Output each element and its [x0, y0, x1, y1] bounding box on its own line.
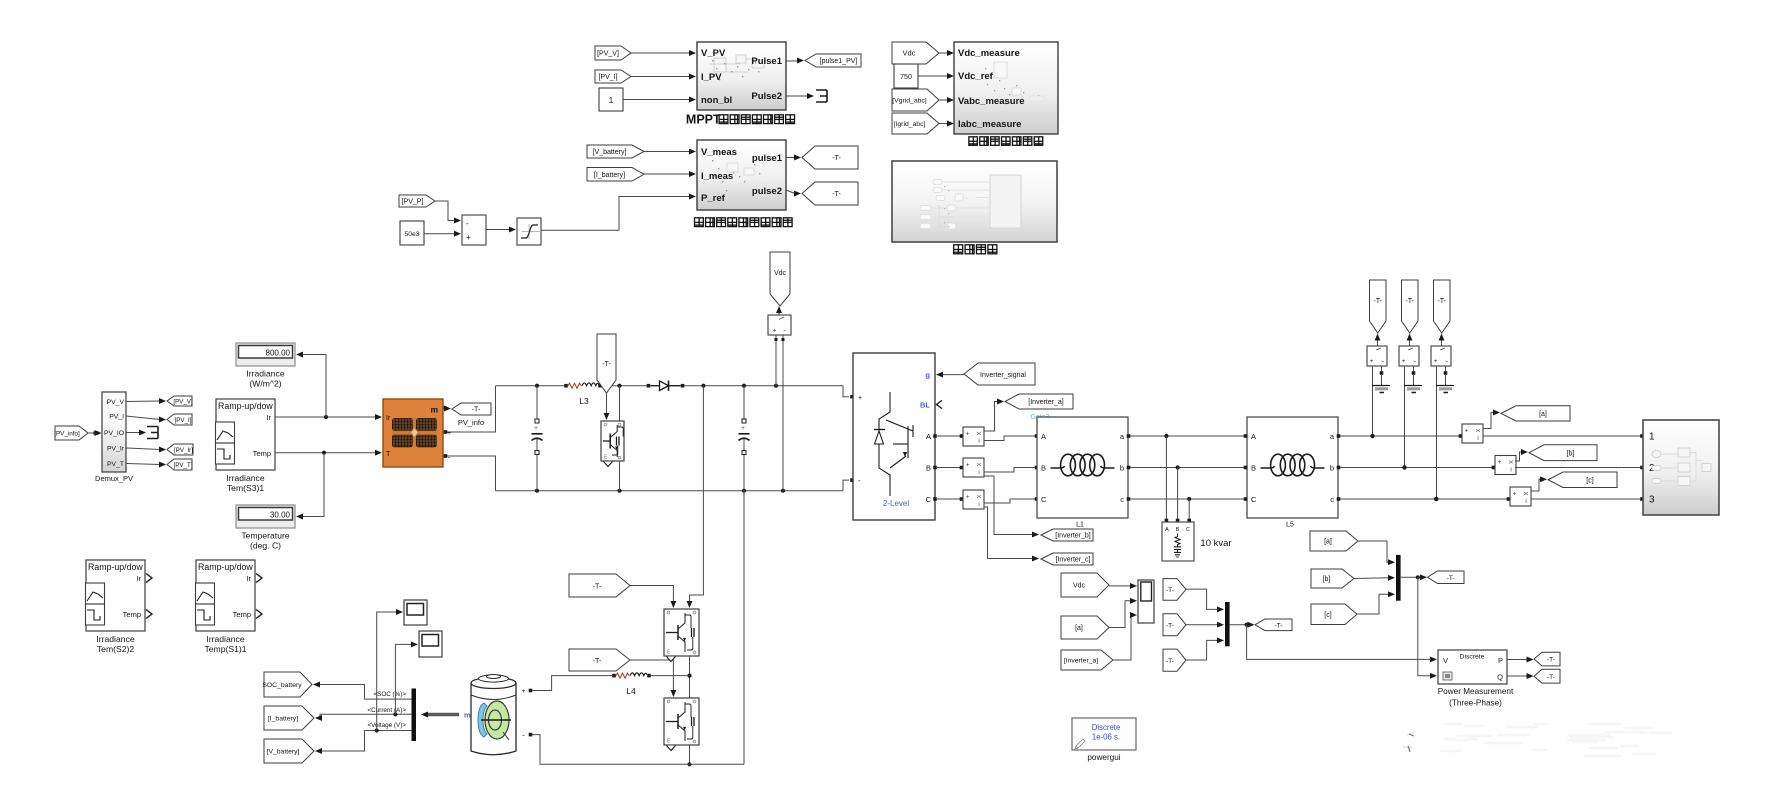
svg-text:50e3: 50e3: [404, 231, 419, 238]
goto tag [I_battery] (goto): [264, 706, 314, 730]
svg-text:P: P: [1498, 656, 1503, 665]
goto tag [b] (grid current): [1529, 445, 1597, 461]
svg-text:Ir: Ir: [386, 415, 391, 422]
wire phase a L1 to L5: [1127, 434, 1248, 438]
wire: [424, 233, 456, 235]
svg-text:C: C: [926, 495, 932, 504]
wire: [126, 464, 160, 465]
goto tag [PV_T]: [167, 459, 193, 470]
svg-text:[PV_info]: [PV_info]: [54, 431, 80, 438]
ground symbol phase c: [1436, 386, 1454, 393]
arrowhead Pulse2 terminator: [807, 93, 814, 99]
bus wire PV_info to demux: [88, 430, 102, 436]
from tag [PV_info]: [54, 426, 88, 440]
subsystem inverter control block: [954, 42, 1058, 134]
wire Vdc measurement + to DC+: [775, 335, 778, 386]
subsystem battery charge/discharge power module: [697, 140, 786, 210]
arrowhead Vabc_measure: [947, 97, 954, 103]
svg-text:Vdc: Vdc: [1073, 583, 1086, 590]
svg-text:BL: BL: [920, 401, 930, 410]
wire Inverter_signal to g: [936, 372, 964, 378]
display block Temperature (deg. C): [236, 505, 295, 528]
svg-text:-T-: -T-: [593, 584, 602, 591]
ground symbol phase a: [1372, 386, 1390, 393]
wire: [644, 173, 690, 175]
wire gate to boost IGBT: [604, 393, 610, 420]
svg-text:PV_V: PV_V: [107, 399, 125, 406]
title MPPT tracker (Chinese): [686, 112, 795, 126]
wire Temp to PV array: [275, 450, 382, 456]
saturation block: [517, 218, 541, 245]
current measurement block Iab inverter C: [963, 490, 984, 509]
arrowhead goto -T- pulse1: [794, 155, 801, 161]
svg-text:+: +: [966, 463, 970, 469]
svg-text:+: +: [522, 688, 526, 695]
wire: [541, 197, 690, 231]
svg-text:Ramp-up/dow: Ramp-up/dow: [88, 562, 143, 572]
svg-text:+: +: [447, 430, 451, 437]
svg-text:i: i: [1525, 499, 1526, 505]
svg-text:+: +: [741, 425, 745, 432]
label PV_info: [458, 418, 484, 427]
wire phase a tap to capacitor bank: [1165, 436, 1169, 522]
wire battery + through L4 to half-bridge midpoint: [522, 676, 612, 695]
svg-text:Iabc_measure: Iabc_measure: [958, 119, 1021, 130]
svg-text:[Igrid_abc]: [Igrid_abc]: [894, 121, 926, 128]
arrowhead Vdc_ref: [947, 73, 954, 79]
title battery power module (Chinese): [695, 218, 793, 227]
label Demux_PV: [95, 474, 133, 483]
from tag -T- (buck gate bottom): [569, 649, 630, 671]
wire: [623, 99, 690, 101]
wire: [126, 400, 160, 403]
svg-text:[Vgrid_abc]: [Vgrid_abc]: [892, 98, 926, 105]
svg-text:Temp: Temp: [233, 610, 251, 619]
svg-text:L1: L1: [1076, 522, 1084, 529]
svg-text:g: g: [925, 371, 930, 380]
from tag Vdc (vertical goto above voltage measurement): [770, 252, 790, 306]
capacitor C2 (DC link): [739, 386, 750, 491]
current measurement block Iab inverter A: [963, 427, 984, 446]
svg-text:[Inverter_a]: [Inverter_a]: [1064, 658, 1098, 665]
wire [Inverter_a] to scope: [1113, 612, 1137, 660]
wire Ir to PV array: [275, 414, 382, 420]
from tag -T- (mux1 input 2): [1163, 614, 1186, 636]
wire SOC to goto SOC_battery: [313, 682, 412, 700]
label Irradiance 1: [96, 634, 134, 644]
svg-text:PV_I: PV_I: [109, 414, 124, 421]
wire -T- 1 to mux1: [1186, 589, 1224, 612]
wire: [786, 190, 795, 194]
bus wire m to PV_info goto: [443, 406, 451, 412]
voltage measurement block Vdc: [768, 315, 791, 335]
svg-text:[I_battery]: [I_battery]: [594, 172, 625, 179]
wire phase c tap to capacitor bank: [1187, 499, 1191, 522]
svg-text:I_meas: I_meas: [701, 171, 733, 182]
svg-text:Power Measurement: Power Measurement: [1438, 687, 1514, 696]
constant block 750: [894, 64, 918, 88]
svg-text:L3: L3: [579, 396, 589, 406]
svg-text:C: C: [1041, 495, 1047, 504]
universal bridge 2-Level inverter: [853, 353, 935, 520]
label L5: [1286, 522, 1294, 529]
title inverter control part (Chinese): [969, 137, 1043, 146]
goto tag -T- vertical (phase b voltage): [1402, 280, 1419, 333]
svg-text:-T-: -T-: [1547, 657, 1555, 664]
svg-text:pulse2: pulse2: [752, 186, 782, 197]
svg-text:Temp: Temp: [253, 449, 271, 458]
svg-text:[PV_P]: [PV_P]: [402, 199, 424, 206]
IGBT battery top: [664, 609, 699, 656]
svg-text:powergui: powergui: [1087, 753, 1120, 762]
svg-text:[a]: [a]: [1539, 411, 1547, 418]
svg-text:+: +: [1434, 359, 1438, 365]
subsystem waveform scope block: [892, 161, 1057, 242]
PV array block (orange): [383, 399, 451, 467]
wire: [631, 52, 690, 54]
svg-text:V: V: [1443, 656, 1448, 665]
svg-text:750: 750: [900, 74, 912, 81]
goto tag -T- (Q): [1534, 669, 1560, 683]
svg-text:-T-: -T-: [832, 155, 841, 162]
wire cm C signal to goto [Inverter_c]: [984, 507, 1039, 561]
svg-text:B: B: [1176, 527, 1180, 533]
from tag [c] (pm): [1311, 604, 1357, 625]
svg-text:[a]: [a]: [1075, 625, 1083, 632]
svg-text:-T-: -T-: [1166, 587, 1174, 594]
wire: [786, 60, 797, 62]
arrowhead Iabc_measure: [947, 121, 954, 127]
wire top IGBT emitter to midpoint: [687, 656, 691, 698]
wire cm a signal to goto [a]: [1483, 410, 1500, 429]
voltage measurement block phase c: [1431, 346, 1451, 366]
constant block 50e3: [400, 221, 424, 245]
svg-text:Irradiance: Irradiance: [246, 369, 284, 379]
wire bridge C to current measurement C: [933, 497, 963, 501]
wire: [126, 416, 160, 420]
wire: [786, 157, 795, 159]
svg-text:A: A: [1041, 432, 1046, 441]
wire boost IGBT collector to DC+: [619, 386, 621, 421]
svg-text:10 kvar: 10 kvar: [1200, 538, 1231, 549]
svg-text:Q: Q: [1497, 673, 1503, 682]
wire Vdc to scope: [1109, 583, 1137, 589]
wire [a] to mux2: [1358, 541, 1395, 565]
power measurement block (three-phase): [1438, 650, 1507, 684]
wire bottom IGBT emitter to battery negative rail: [687, 745, 691, 766]
arrowhead to [PV_T]: [159, 462, 166, 468]
svg-text:B: B: [1041, 464, 1046, 473]
label Irradiance 1: [226, 473, 264, 483]
arrowhead I_meas: [689, 171, 696, 177]
svg-text:1e-06 s.: 1e-06 s.: [1092, 733, 1120, 742]
from tag [PV_P]: [399, 195, 435, 207]
goto tag -T- (pulse2): [802, 182, 858, 205]
IGBT battery top m-port open arrow: [667, 657, 676, 662]
svg-text:-T-: -T-: [1166, 658, 1174, 665]
svg-text:C: C: [1251, 495, 1257, 504]
svg-text:[c]: [c]: [1586, 477, 1593, 484]
svg-text:L4: L4: [626, 686, 636, 696]
display block Irradiance (W/m^2): [236, 343, 295, 366]
constant block 1: [599, 88, 623, 111]
svg-text:T: T: [386, 451, 391, 458]
svg-text:[PV_I]: [PV_I]: [175, 417, 192, 424]
sum block (Add): [462, 215, 486, 245]
label Temperature: [241, 531, 289, 541]
svg-text:Ir: Ir: [266, 413, 271, 422]
wire mux2 output to goto -T-: [1401, 574, 1427, 580]
arrowhead I_PV: [689, 74, 696, 80]
wire voltage tap to scope1: [377, 609, 403, 730]
svg-text:Ir: Ir: [246, 574, 251, 583]
svg-text:+: +: [1498, 460, 1502, 466]
demux block Demux_PV: [102, 392, 126, 472]
svg-text:-T-: -T-: [593, 658, 602, 665]
wire: [435, 201, 456, 221]
svg-text:(Three-Phase): (Three-Phase): [1449, 699, 1502, 708]
diode boost: [647, 381, 685, 391]
label Irradiance: [246, 369, 284, 379]
svg-text:Vdc: Vdc: [774, 270, 787, 277]
wire [a] to scope: [1109, 598, 1137, 628]
three-phase series RL branch L5: [1247, 417, 1338, 518]
arrowhead sum minus: [454, 218, 461, 224]
wire phase c L1 to L5: [1127, 497, 1248, 501]
subsystem MPPT tracker block: [697, 42, 786, 110]
svg-text:Temperature: Temperature: [241, 531, 289, 541]
arrowhead V_PV: [689, 50, 696, 56]
label Current output: [368, 707, 407, 714]
wire: [786, 95, 808, 97]
goto tag -T- (pulse1): [802, 146, 858, 169]
goto tag [c] (grid current): [1548, 472, 1617, 488]
goto tag -T- (P): [1534, 652, 1560, 666]
from tag [PV_V]: [595, 46, 631, 60]
wire vm a + down to phase wire: [1370, 366, 1374, 438]
svg-text:800.00: 800.00: [266, 348, 291, 357]
wire: [126, 448, 160, 450]
svg-text:[PV_V]: [PV_V]: [173, 399, 193, 406]
svg-text:2-Level: 2-Level: [883, 499, 909, 508]
svg-text:L5: L5: [1286, 522, 1294, 529]
svg-text:PV_T: PV_T: [107, 461, 124, 468]
label 10 kvar: [1200, 538, 1231, 549]
svg-text:-T-: -T-: [1373, 298, 1382, 305]
arrowhead into Vdc tag: [776, 306, 782, 315]
svg-text:i: i: [978, 470, 979, 476]
goto tag [a] (grid current): [1501, 406, 1570, 421]
goto tag SOC_battery: [262, 672, 312, 697]
svg-text:<Voltage (V)>: <Voltage (V)>: [367, 722, 406, 729]
wire Q to goto -T-: [1507, 673, 1534, 679]
bus wire battery m to bus selector: [421, 712, 459, 718]
svg-text:[V_battery]: [V_battery]: [267, 749, 300, 756]
series RL branch L3: [564, 383, 602, 388]
svg-text:SOC_battery: SOC_battery: [262, 682, 302, 689]
open arrow BL port: [937, 400, 943, 408]
svg-text:-: -: [466, 219, 469, 228]
svg-text:C: C: [1186, 527, 1190, 533]
svg-text:PV_info: PV_info: [458, 418, 484, 427]
label m (blue): [464, 711, 471, 720]
svg-text:(deg. C): (deg. C): [250, 541, 281, 551]
wire phase b L5 to cm and grid: [1337, 465, 1496, 469]
svg-text:Demux_PV: Demux_PV: [95, 474, 133, 483]
arrowhead sum plus: [454, 231, 461, 237]
IGBT battery bottom: [664, 698, 699, 745]
svg-text:Ramp-up/dow: Ramp-up/dow: [198, 562, 253, 572]
label powergui: [1087, 753, 1120, 762]
wire cm b signal to goto [b]: [1515, 449, 1528, 461]
ramp source block Irradiance Tem(S3)1: [216, 399, 276, 470]
wire vm b - to ground: [1412, 366, 1416, 386]
goto tag [PV_V]: [167, 396, 193, 406]
svg-text:pulse1: pulse1: [752, 153, 783, 164]
svg-text:1: 1: [609, 96, 614, 105]
from tag -T- (mux1 input 1): [1163, 579, 1186, 601]
wire mux1 junction to power measurement V: [1247, 625, 1437, 663]
svg-text:-T-: -T-: [1437, 298, 1446, 305]
wire cm B to L1 port B: [984, 466, 1038, 472]
svg-text:+: +: [1402, 359, 1406, 365]
arrowhead to [PV_V]: [159, 398, 166, 404]
terminator block (PV_IO): [147, 427, 158, 439]
svg-text:b: b: [1330, 464, 1334, 473]
wire: [126, 432, 141, 434]
svg-text:30.00: 30.00: [270, 510, 291, 519]
arrowhead to [PV_I]: [159, 417, 166, 423]
svg-text:Tem(S2)2: Tem(S2)2: [97, 644, 134, 654]
scope block 1: [404, 600, 427, 625]
wire current tap to scope2: [395, 641, 418, 714]
svg-text:Irradiance: Irradiance: [206, 634, 244, 644]
svg-text:Temp: Temp: [123, 610, 141, 619]
from tag [b] (pm): [1311, 569, 1354, 588]
svg-text:+: +: [966, 432, 970, 438]
svg-text:-T-: -T-: [1405, 298, 1414, 305]
wire bridge A to current measurement A: [933, 434, 963, 438]
from tag Inverter_signal (flipped): [964, 363, 1035, 385]
wire: [486, 229, 511, 231]
wire mux1 output to goto -T-: [1230, 622, 1255, 628]
svg-text:[Inverter_a]: [Inverter_a]: [1028, 399, 1063, 406]
wire mux2 junction to power measurement I: [1418, 577, 1437, 678]
voltage measurement block phase b: [1399, 346, 1419, 366]
ground symbol phase b: [1404, 386, 1422, 393]
svg-text:[PV_Ir]: [PV_Ir]: [174, 447, 193, 454]
powergui block: [1072, 718, 1136, 750]
wire: [939, 123, 948, 125]
wire Current to goto [I_battery]: [315, 712, 412, 721]
label L1: [1076, 522, 1084, 529]
wire phase b tap to capacitor bank: [1176, 468, 1180, 523]
current measurement block phase c: [1510, 487, 1531, 506]
arrowhead to [PV_Ir]: [159, 447, 166, 453]
svg-text:Vdc_measure: Vdc_measure: [958, 48, 1020, 59]
svg-text:-T-: -T-: [832, 191, 841, 198]
svg-text:I_PV: I_PV: [701, 72, 722, 83]
svg-text:[b]: [b]: [1323, 576, 1331, 583]
svg-text:+: +: [1513, 492, 1517, 498]
arrowhead saturation in: [509, 227, 516, 233]
svg-text:B: B: [1251, 464, 1256, 473]
from tag [Igrid_abc]: [892, 113, 939, 134]
scope block (3-input): [1138, 580, 1154, 623]
wire DC- bottom rail: [496, 478, 854, 493]
three-phase series RL branch L1: [1037, 417, 1128, 518]
svg-text:+: +: [1465, 429, 1469, 435]
wire vm a - to ground: [1380, 366, 1384, 386]
voltage measurement block phase a: [1367, 346, 1387, 366]
label Tem(S2)2: [97, 644, 134, 654]
svg-text:+: +: [466, 233, 471, 242]
wire phase c L5 to cm and grid: [1337, 497, 1511, 501]
from tag [a] (bottom): [1061, 616, 1109, 639]
arrowhead V_meas: [689, 149, 696, 155]
svg-text:3: 3: [1649, 495, 1655, 506]
wire tap to Temperature display: [296, 453, 324, 520]
wire cm C to L1 port C: [984, 497, 1038, 503]
svg-text:-T-: -T-: [1447, 575, 1455, 582]
svg-text:+: +: [773, 329, 777, 335]
svg-text:A: A: [1251, 432, 1256, 441]
from tag [I_battery]: [587, 168, 644, 182]
svg-text:MPPT: MPPT: [686, 112, 721, 126]
svg-text:[Inverter_c]: [Inverter_c]: [1055, 557, 1090, 564]
svg-text:-T-: -T-: [1166, 622, 1174, 629]
svg-text:[PV_V]: [PV_V]: [597, 51, 619, 58]
svg-text:Vdc: Vdc: [903, 49, 916, 58]
title waveform observation (Chinese): [954, 245, 997, 254]
svg-text:[a]: [a]: [1324, 539, 1332, 546]
arrowhead non_bl: [689, 97, 696, 103]
scope block 2: [419, 631, 442, 657]
label (deg. C): [250, 541, 281, 551]
goto tag [Inverter_a]: [1005, 394, 1073, 409]
svg-text:[Inverter_b]: [Inverter_b]: [1055, 533, 1090, 540]
svg-text:m: m: [464, 711, 471, 720]
wire phase b L1 to L5: [1127, 465, 1248, 469]
wire DC+ to battery half-bridge: [687, 386, 704, 608]
arrowhead to terminator: [139, 430, 146, 436]
svg-text:Irradiance: Irradiance: [226, 473, 264, 483]
wire: [918, 75, 948, 77]
from tag -T- (buck gate top): [569, 574, 630, 597]
svg-text:Discrete: Discrete: [1460, 654, 1485, 661]
label (Three-Phase): [1449, 699, 1502, 708]
goto tag [Inverter_c]: [1041, 553, 1093, 565]
wire Voltage to goto [V_battery]: [315, 728, 412, 754]
mux block 2: [1396, 555, 1401, 601]
label Temp(S1)1: [204, 644, 246, 654]
svg-text:PV_Ir: PV_Ir: [107, 446, 125, 453]
mux block 1: [1225, 602, 1230, 646]
from tag -T- (boost gate): [597, 334, 616, 393]
svg-text:V_meas: V_meas: [701, 147, 737, 158]
current measurement block phase b: [1495, 456, 1516, 475]
svg-text:Vdc_ref: Vdc_ref: [958, 71, 994, 82]
ramp source block Irradiance Temp(S1)1: [196, 560, 263, 631]
svg-text:Pulse1: Pulse1: [751, 56, 782, 67]
wire cm A signal to goto [Inverter_a]: [984, 399, 1004, 431]
from tag [Inverter_a] (bottom): [1061, 650, 1113, 670]
svg-text:c: c: [1120, 495, 1124, 504]
label L3: [579, 396, 589, 406]
from tag Vdc (bottom): [1061, 573, 1109, 597]
wire -T- 3 to mux1: [1186, 637, 1224, 660]
from tag -T- (mux1 input 3): [1163, 649, 1186, 671]
